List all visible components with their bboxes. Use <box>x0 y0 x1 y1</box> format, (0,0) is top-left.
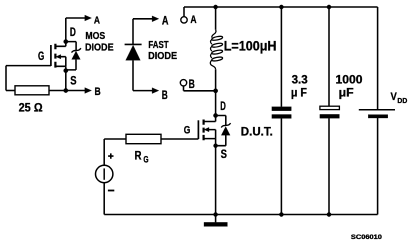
wire drain up M1 <box>65 18 67 46</box>
svg-text:D: D <box>220 101 226 113</box>
label plus <box>108 153 113 158</box>
arrow A left <box>85 15 92 21</box>
svg-text:R: R <box>135 149 142 162</box>
wire left drop <box>5 66 7 91</box>
wire resistor to B <box>49 90 86 92</box>
diode D1 (body diode of M1) <box>66 42 81 70</box>
wire top rail <box>184 6 378 8</box>
svg-text:A: A <box>190 14 196 26</box>
svg-text:FAST: FAST <box>148 40 169 51</box>
wire fast diode to A <box>133 18 153 20</box>
junction dot S node DUT <box>214 144 218 148</box>
svg-text:DD: DD <box>397 96 407 105</box>
terminal B circle <box>180 80 186 86</box>
svg-text:SC06010: SC06010 <box>351 234 383 241</box>
label VDD <box>391 91 408 105</box>
terminal A circle <box>181 17 187 23</box>
transistor M1 (MOS diode MOSFET) <box>51 44 66 68</box>
arrow B left <box>85 88 92 94</box>
svg-text:B: B <box>189 77 195 91</box>
resistor 25 ohm <box>15 86 49 95</box>
junction dot bottom DUT <box>214 212 218 216</box>
svg-text:μF: μF <box>339 87 354 100</box>
wire source drop M1 <box>65 66 67 90</box>
junction dot bottom C2 <box>327 212 331 216</box>
junction dot top rail inductor <box>214 5 218 9</box>
wire A terminal stub <box>183 7 185 17</box>
svg-text:L=100μH: L=100μH <box>224 38 277 54</box>
wire inductor to drain <box>215 69 217 121</box>
svg-text:S: S <box>70 74 76 88</box>
capacitor C2 1000uF electrolytic <box>320 7 340 215</box>
wire bottom rail <box>104 214 377 216</box>
wire source drop DUT <box>215 139 217 215</box>
svg-text:DIODE: DIODE <box>85 43 114 54</box>
svg-text:G: G <box>38 50 44 63</box>
arrow A fast <box>152 16 159 22</box>
node S junction left <box>64 88 68 92</box>
wire gate M1 <box>6 65 51 67</box>
svg-text:DIODE: DIODE <box>148 51 177 62</box>
svg-text:A: A <box>94 14 100 26</box>
wire rail to inductor <box>215 7 217 30</box>
svg-text:B: B <box>95 86 101 98</box>
svg-text:G: G <box>184 125 191 137</box>
svg-text:D: D <box>70 27 76 39</box>
label minus <box>108 190 114 192</box>
diode D2 (fast diode) <box>125 19 142 91</box>
wire generator to bottom rail <box>103 183 105 215</box>
resistor RG <box>126 134 161 143</box>
junction dot bottom C1 <box>279 212 283 216</box>
transistor M2 (D.U.T. MOSFET) <box>198 120 215 141</box>
diode D3 (body diode of DUT) <box>216 116 231 146</box>
wire to resistor <box>6 90 15 92</box>
inductor L1 <box>210 30 223 70</box>
svg-text:S: S <box>221 149 228 161</box>
wire fast diode to B <box>133 90 153 92</box>
svg-text:G: G <box>143 155 148 165</box>
svg-text:3.3: 3.3 <box>292 73 309 86</box>
junction dot D node DUT <box>213 113 217 117</box>
svg-text:μ F: μ F <box>291 87 307 100</box>
source V1 (pulse generator) <box>96 165 113 182</box>
svg-text:A: A <box>162 16 169 28</box>
svg-text:D.U.T.: D.U.T. <box>241 126 273 138</box>
capacitor C1 3.3uF <box>272 7 291 215</box>
wire to A left <box>66 17 86 19</box>
svg-text:MOS: MOS <box>85 31 105 42</box>
ground <box>204 215 227 227</box>
svg-text:1000: 1000 <box>336 73 363 86</box>
junction dot D node M1 <box>64 39 68 43</box>
junction dot S node M1 <box>64 68 68 72</box>
battery VDD <box>359 7 395 215</box>
wire RG to gate <box>161 138 198 140</box>
arrow B fast <box>152 88 159 94</box>
junction dot top rail C1 <box>279 5 283 9</box>
svg-text:B: B <box>162 90 168 102</box>
label RG <box>135 149 149 164</box>
wire B terminal stub <box>184 86 216 91</box>
wire generator to RG <box>104 139 126 165</box>
junction dot B tap <box>213 89 217 93</box>
svg-text:25 Ω: 25 Ω <box>19 101 43 115</box>
junction dot top rail C2 <box>327 5 331 9</box>
